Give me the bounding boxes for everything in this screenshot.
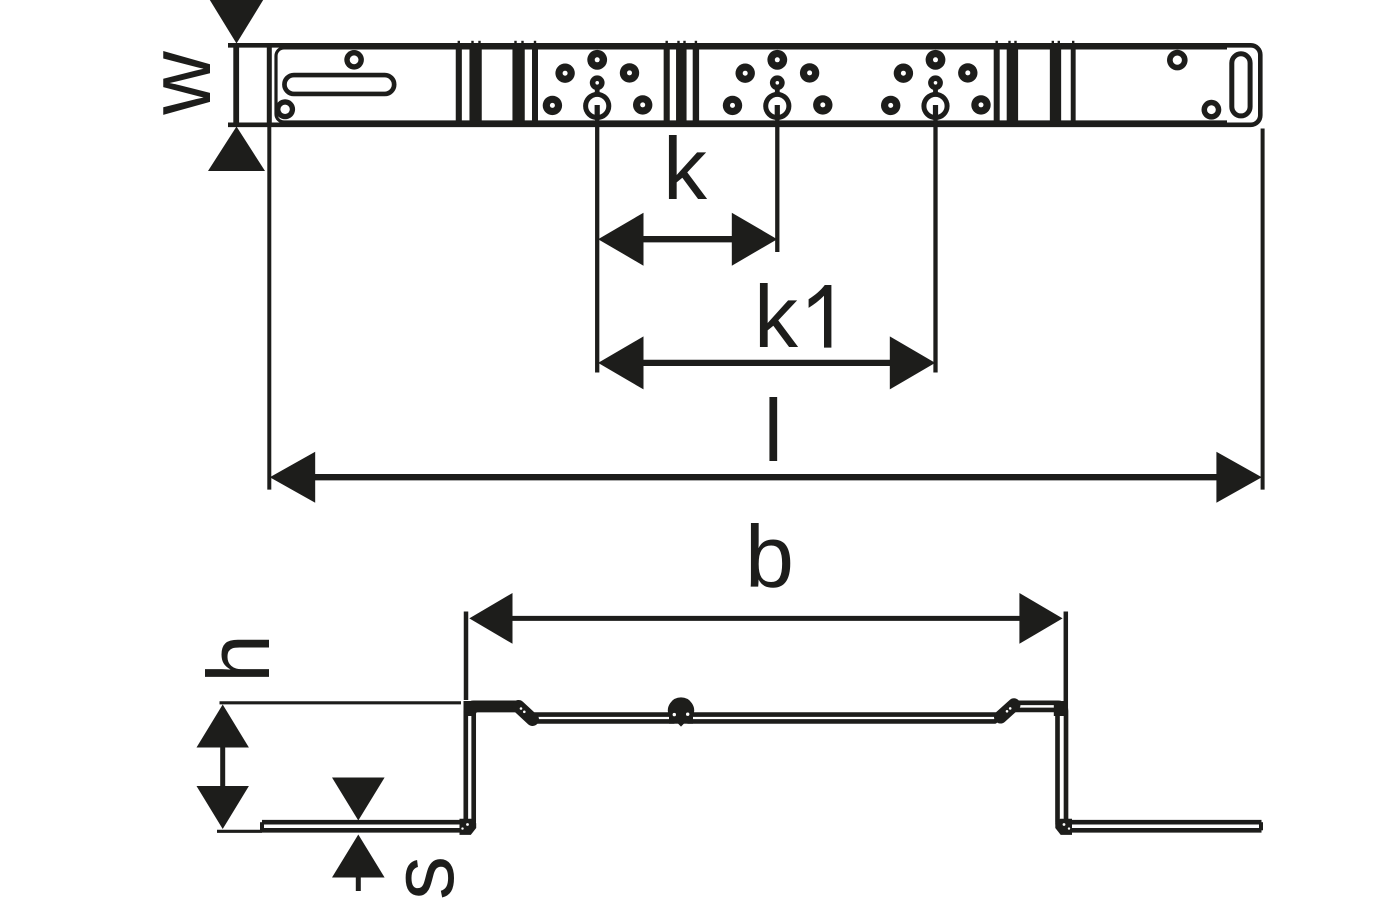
group 2 keyhole ring xyxy=(775,87,780,96)
extension line b right xyxy=(1064,612,1069,710)
group 2 lower-right hole xyxy=(813,95,832,114)
rib band L6 xyxy=(676,43,687,124)
dimension k1 arrow right xyxy=(890,336,935,389)
rail inner top line xyxy=(276,48,1227,122)
group 2 top hole xyxy=(767,50,787,70)
group 3 top hole xyxy=(926,50,946,70)
rail outer outline (top view) xyxy=(228,45,1260,125)
rib line L8 xyxy=(994,43,1000,124)
svg-text:h: h xyxy=(189,634,288,683)
hole group 2 (cx 777.3) xyxy=(723,50,833,120)
profile bead notch under bump xyxy=(670,700,692,715)
profile right jog weld xyxy=(1001,705,1015,717)
hole group 3 (cx 935.5) xyxy=(881,50,991,120)
dimension b arrow left xyxy=(469,593,512,644)
left slot xyxy=(284,75,394,94)
profile bottom-right corner weld xyxy=(1055,819,1072,835)
dimension s tail xyxy=(356,877,361,891)
group 1 small middle hole xyxy=(590,75,605,90)
extension line l left xyxy=(267,127,271,490)
extension line hole group 3 xyxy=(933,118,937,373)
dimension k arrow right xyxy=(732,213,777,266)
profile top-left corner weld xyxy=(464,701,477,716)
group 2 upper-right hole xyxy=(800,63,819,82)
rib line L1 xyxy=(456,43,462,124)
group 3 upper-right hole xyxy=(958,63,977,82)
extension line h top xyxy=(220,701,462,704)
dimension k line xyxy=(642,236,733,242)
svg-text:w: w xyxy=(130,51,229,116)
rail left end edge xyxy=(267,45,272,125)
svg-text:b: b xyxy=(745,507,794,606)
profile right sheet end cap xyxy=(1259,822,1263,830)
hole group 1 (cx 597.2) xyxy=(543,50,653,120)
extension line l right xyxy=(1261,129,1265,490)
dimension h connector xyxy=(220,746,225,787)
profile top-right corner weld xyxy=(1054,701,1067,716)
rib tick stubs above rail xyxy=(459,41,1073,45)
rib band L9 xyxy=(1007,43,1018,124)
group 1 lower-left hole xyxy=(543,96,562,115)
group 3 keyhole ring xyxy=(933,87,938,96)
dimension h arrow up xyxy=(197,705,249,748)
rib line L4 xyxy=(532,43,538,124)
extension line hole group 1 xyxy=(595,118,599,373)
dimension s arrow up xyxy=(332,835,385,878)
dimension w arrow bottom xyxy=(208,127,265,172)
profile left sheet end cap xyxy=(260,822,264,830)
left end hole (top) xyxy=(344,50,364,70)
dimension w line xyxy=(233,44,239,127)
svg-text:k: k xyxy=(754,267,799,366)
dimension l line xyxy=(313,474,1218,480)
dimension l arrow left xyxy=(270,452,315,503)
extension line h bottom xyxy=(217,830,262,833)
extension line b left xyxy=(464,612,469,701)
right end hole (bottom) xyxy=(1202,100,1222,120)
left end hole (bottom) xyxy=(275,99,295,119)
rib line L11 xyxy=(1071,43,1076,124)
profile left jog weld xyxy=(519,707,533,720)
group 2 small middle hole xyxy=(770,75,785,90)
group 1 upper-right hole xyxy=(620,63,639,82)
dimension k arrow left xyxy=(598,213,643,266)
profile top surface contour (cross-section) xyxy=(262,700,1262,822)
svg-text:s: s xyxy=(373,856,472,900)
group 2 lower-left hole xyxy=(723,96,742,115)
dimension h arrow down xyxy=(197,786,249,829)
rib band L10 xyxy=(1050,43,1061,124)
right end hole (top) xyxy=(1167,50,1188,71)
dimension l arrow right xyxy=(1216,452,1261,503)
group 1 top hole xyxy=(587,50,607,70)
dimension b line xyxy=(510,616,1022,621)
rib line L5 xyxy=(664,43,670,124)
profile bottom-left corner weld xyxy=(460,819,477,835)
rib band L2 xyxy=(469,43,481,124)
dimension s arrow down xyxy=(332,778,385,821)
dimension w arrow top xyxy=(208,0,265,44)
profile bottom surface contour (cross-section) xyxy=(262,710,1262,831)
group 3 small middle hole xyxy=(928,75,943,90)
dimension k1 line xyxy=(642,360,891,366)
rib line L7 xyxy=(693,43,699,124)
group 1 lower-right hole xyxy=(633,95,652,114)
group 1 upper-left hole xyxy=(555,63,574,82)
svg-text:l: l xyxy=(764,381,784,480)
group 3 upper-left hole xyxy=(894,63,913,82)
group 2 upper-left hole xyxy=(736,63,755,82)
right slot xyxy=(1232,54,1250,116)
extension line hole group 2 xyxy=(775,118,779,252)
dimension k1 arrow left xyxy=(598,336,643,389)
group 1 keyhole ring xyxy=(595,87,600,96)
svg-text:k: k xyxy=(663,119,708,218)
rib band L3 xyxy=(512,43,524,124)
dimension b arrow right xyxy=(1019,593,1062,644)
group 3 lower-right hole xyxy=(971,95,990,114)
group 3 lower-left hole xyxy=(881,96,900,115)
